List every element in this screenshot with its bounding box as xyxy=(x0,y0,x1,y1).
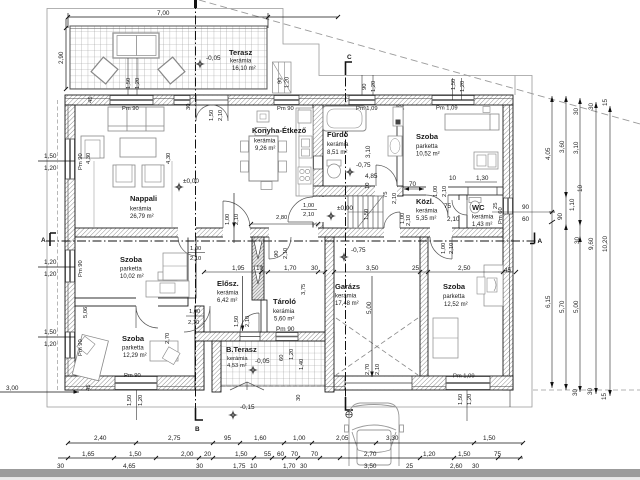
svg-text:1,30: 1,30 xyxy=(476,175,489,182)
room label elosz xyxy=(217,279,239,304)
svg-text:5,60 m²: 5,60 m² xyxy=(274,317,294,323)
svg-text:12,29 m²: 12,29 m² xyxy=(123,353,147,359)
svg-text:20: 20 xyxy=(204,451,212,458)
arc left divider door xyxy=(136,306,158,328)
svg-text:parketta: parketta xyxy=(120,267,142,273)
svg-text:2,80: 2,80 xyxy=(276,215,287,221)
bottom dimension row 2 xyxy=(58,456,523,460)
opening 1.30 bedroom south xyxy=(468,188,497,195)
svg-text:30: 30 xyxy=(472,463,480,470)
room label garazs xyxy=(335,282,360,307)
door dim line garage xyxy=(370,276,374,377)
svg-text:1,40: 1,40 xyxy=(299,359,305,370)
nappali chair b xyxy=(142,165,164,187)
wc window 90 60 xyxy=(492,204,555,223)
svg-text:±0,00: ±0,00 xyxy=(337,205,353,212)
left chain line xyxy=(57,100,59,392)
svg-text:2,90: 2,90 xyxy=(58,51,65,64)
svg-text:2,05: 2,05 xyxy=(336,435,349,442)
svg-text:12,52 m²: 12,52 m² xyxy=(444,302,468,308)
svg-text:kerámia: kerámia xyxy=(230,59,252,65)
svg-text:1,60: 1,60 xyxy=(254,435,267,442)
svg-text:1,00: 1,00 xyxy=(433,186,439,197)
room label terasz xyxy=(229,48,256,72)
svg-text:Szoba: Szoba xyxy=(416,132,439,141)
svg-text:3,50: 3,50 xyxy=(366,265,379,272)
svg-text:1,50: 1,50 xyxy=(126,78,132,89)
window tarolo south Pm90 xyxy=(276,333,298,341)
svg-text:kerámia: kerámia xyxy=(472,215,494,221)
entrance steps xyxy=(273,62,292,93)
nappali armchair xyxy=(81,136,104,158)
room label bterasz xyxy=(226,345,257,369)
svg-text:-0,05: -0,05 xyxy=(206,55,221,62)
svg-text:70: 70 xyxy=(311,451,319,458)
svg-text:Pm 90: Pm 90 xyxy=(122,106,139,112)
svg-text:2,00: 2,00 xyxy=(181,451,194,458)
tarolo-garage wall xyxy=(325,237,334,392)
bathtub xyxy=(323,106,366,131)
svg-text:1,50: 1,50 xyxy=(458,451,471,458)
svg-text:parketta: parketta xyxy=(122,346,144,352)
door gap wc xyxy=(459,200,468,215)
svg-text:C: C xyxy=(347,54,352,61)
svg-text:75: 75 xyxy=(494,451,502,458)
svg-text:90: 90 xyxy=(274,251,280,257)
level marker nappali xyxy=(174,178,199,192)
nappali chair a xyxy=(113,165,135,187)
svg-text:1,20: 1,20 xyxy=(460,81,466,92)
svg-text:Pm 90: Pm 90 xyxy=(276,326,295,333)
bedroom-hall partition left xyxy=(188,237,196,298)
elosz-tarolo partition xyxy=(261,300,267,332)
staircase xyxy=(348,196,383,228)
room label szoba ml xyxy=(120,255,144,280)
svg-text:-0,05: -0,05 xyxy=(255,358,270,365)
window wc right xyxy=(504,198,513,214)
svg-text:60: 60 xyxy=(522,216,530,223)
top wall window labels xyxy=(122,106,458,113)
svg-text:70: 70 xyxy=(291,451,299,458)
svg-text:60: 60 xyxy=(277,451,285,458)
svg-text:2,10: 2,10 xyxy=(218,110,224,121)
svg-text:30: 30 xyxy=(311,265,319,272)
svg-text:1,20: 1,20 xyxy=(285,77,291,88)
room label nappali xyxy=(130,194,157,220)
wall insulation layer lines xyxy=(65,99,513,387)
level marker garage xyxy=(339,247,366,262)
bath wall niche xyxy=(314,156,323,169)
svg-text:8,51 m²: 8,51 m² xyxy=(327,150,347,156)
svg-text:1,20: 1,20 xyxy=(44,341,57,348)
window top c xyxy=(274,96,299,105)
svg-text:Fürdő: Fürdő xyxy=(327,130,349,139)
svg-text:Pm 90: Pm 90 xyxy=(78,339,84,356)
svg-text:kerámia: kerámia xyxy=(327,142,349,148)
svg-text:15: 15 xyxy=(602,98,609,106)
section line B xyxy=(194,0,203,433)
window left b xyxy=(66,250,75,282)
svg-text:30: 30 xyxy=(587,387,594,395)
svg-text:Szoba: Szoba xyxy=(443,282,466,291)
svg-text:1,20: 1,20 xyxy=(44,259,57,266)
garage-room wall xyxy=(420,237,428,376)
top wall dim line C xyxy=(128,58,462,100)
door dim line elosz xyxy=(241,276,245,331)
svg-text:2,10: 2,10 xyxy=(245,316,251,327)
svg-text:90: 90 xyxy=(278,78,284,84)
dimension top 7,00 xyxy=(66,13,340,28)
main interior spine wall xyxy=(75,228,503,237)
svg-text:2,10: 2,10 xyxy=(449,243,455,254)
svg-text:10: 10 xyxy=(577,184,584,192)
window top Pm90 a xyxy=(110,96,153,105)
bath south wall xyxy=(313,186,403,196)
svg-text:30: 30 xyxy=(196,463,204,470)
svg-text:5,00: 5,00 xyxy=(366,301,373,314)
door gaps in spine wall xyxy=(178,228,452,238)
terrace door elosz xyxy=(240,333,260,341)
svg-text:1,20: 1,20 xyxy=(371,81,377,92)
bottom wall garage and room xyxy=(325,376,513,390)
svg-text:Terasz: Terasz xyxy=(229,48,252,57)
svg-text:1,70: 1,70 xyxy=(283,463,296,470)
svg-text:1,00: 1,00 xyxy=(190,246,201,252)
svg-text:2,70: 2,70 xyxy=(364,451,377,458)
interior dim row garage xyxy=(332,270,518,274)
back terrace west wall xyxy=(212,332,221,392)
room label szoba br xyxy=(443,282,468,308)
kozl door labels xyxy=(444,203,460,223)
svg-text:kerámia: kerámia xyxy=(416,209,438,215)
svg-text:Pm 90: Pm 90 xyxy=(277,106,294,112)
bottom dimension row 3 xyxy=(57,463,480,470)
bottom dashed reference line right xyxy=(533,389,640,391)
svg-text:30: 30 xyxy=(588,102,595,110)
bedroom south partition xyxy=(403,187,503,195)
desk room mid left xyxy=(146,272,189,297)
svg-text:1,43 m²: 1,43 m² xyxy=(472,222,492,228)
svg-text:2,75: 2,75 xyxy=(168,435,181,442)
washbasin xyxy=(388,136,402,156)
room label furdo xyxy=(327,130,349,156)
arc hall-garage door xyxy=(384,212,400,228)
svg-text:2,10: 2,10 xyxy=(283,248,289,259)
terrace chair right xyxy=(158,57,185,84)
left window dims xyxy=(38,161,75,337)
back terrace tiled floor xyxy=(221,341,325,390)
svg-text:1,20: 1,20 xyxy=(138,395,144,406)
arc elosz terrace door xyxy=(240,313,259,332)
kitchen stove xyxy=(298,167,311,184)
svg-text:26,79 m²: 26,79 m² xyxy=(130,214,154,220)
svg-text:1,00: 1,00 xyxy=(189,309,200,315)
svg-text:45: 45 xyxy=(86,385,92,391)
svg-text:2,10: 2,10 xyxy=(442,186,448,197)
svg-text:2,10: 2,10 xyxy=(392,193,398,204)
svg-text:4,53 m²: 4,53 m² xyxy=(227,363,247,369)
arc door into tarolo xyxy=(269,237,291,259)
svg-text:3,10: 3,10 xyxy=(365,145,372,158)
svg-text:4,05: 4,05 xyxy=(545,147,552,160)
svg-text:Szoba: Szoba xyxy=(120,255,143,264)
door dim line nappali xyxy=(232,193,236,243)
svg-text:10: 10 xyxy=(365,183,371,189)
svg-text:1,65: 1,65 xyxy=(82,451,95,458)
svg-text:6,15: 6,15 xyxy=(545,295,552,308)
svg-text:30: 30 xyxy=(57,463,65,470)
svg-text:Garázs: Garázs xyxy=(335,282,360,291)
svg-text:4,85: 4,85 xyxy=(365,173,378,180)
svg-text:parketta: parketta xyxy=(416,144,438,150)
svg-text:5,06: 5,06 xyxy=(83,307,89,318)
svg-text:1,95: 1,95 xyxy=(232,265,245,272)
svg-text:kerámia: kerámia xyxy=(335,294,357,300)
svg-text:90: 90 xyxy=(362,84,368,90)
terrace tiled floor xyxy=(70,26,267,89)
svg-text:2,10: 2,10 xyxy=(406,215,412,226)
bath-bedroom partition xyxy=(397,105,403,186)
svg-text:Közl.: Közl. xyxy=(416,197,434,206)
room label tarolo xyxy=(273,297,296,333)
wc toilet xyxy=(469,198,481,214)
svg-text:Szoba: Szoba xyxy=(122,334,145,343)
svg-text:55: 55 xyxy=(264,451,272,458)
room label wc xyxy=(472,203,494,228)
svg-text:3,30: 3,30 xyxy=(386,435,399,442)
svg-text:2,10: 2,10 xyxy=(234,214,240,225)
kitchen sink xyxy=(299,136,312,158)
window left a xyxy=(66,139,75,179)
room label szoba tr xyxy=(416,132,440,158)
left bedrooms divider wall xyxy=(75,298,188,306)
svg-text:30: 30 xyxy=(574,236,581,244)
svg-text:1,50: 1,50 xyxy=(234,316,240,327)
chimney block xyxy=(252,237,264,300)
window top b xyxy=(174,96,190,105)
bedroom tr dims xyxy=(404,181,424,191)
svg-text:kerámia: kerámia xyxy=(217,291,239,297)
svg-text:6,42 m²: 6,42 m² xyxy=(217,298,237,304)
svg-text:10: 10 xyxy=(250,463,258,470)
svg-text:7,00: 7,00 xyxy=(157,10,170,17)
desk room bottom left xyxy=(150,341,180,365)
window left c xyxy=(66,332,75,358)
svg-text:1,50: 1,50 xyxy=(127,395,133,406)
hall cabinet xyxy=(163,253,187,280)
svg-text:1,00: 1,00 xyxy=(303,203,314,209)
svg-text:1,50: 1,50 xyxy=(483,435,496,442)
svg-text:2,10: 2,10 xyxy=(375,364,381,375)
desk room top right xyxy=(474,152,498,169)
bottom window-door labels xyxy=(124,364,475,406)
svg-text:30: 30 xyxy=(573,107,580,115)
svg-text:3,75: 3,75 xyxy=(301,284,307,295)
svg-text:9,26 m²: 9,26 m² xyxy=(255,146,275,152)
bed room top right xyxy=(445,107,499,131)
svg-text:3,00: 3,00 xyxy=(6,385,19,392)
nappali sofa xyxy=(108,107,164,131)
room label szoba bl xyxy=(122,334,147,359)
arc bath door xyxy=(376,165,397,186)
svg-text:1,75: 1,75 xyxy=(233,463,246,470)
svg-text:Elősz.: Elősz. xyxy=(217,279,239,288)
svg-text:Pm 90: Pm 90 xyxy=(78,260,84,277)
right chain tick marks xyxy=(549,220,555,224)
svg-text:Pm 90: Pm 90 xyxy=(124,373,141,379)
bed room bottom left xyxy=(72,334,108,380)
svg-text:A: A xyxy=(538,238,543,245)
svg-text:1,50: 1,50 xyxy=(44,153,57,160)
svg-text:10,52 m²: 10,52 m² xyxy=(416,152,440,158)
svg-text:25: 25 xyxy=(412,265,420,272)
window top d xyxy=(349,96,375,105)
svg-text:30: 30 xyxy=(572,388,579,396)
door arcs xyxy=(136,105,467,332)
svg-text:2,70: 2,70 xyxy=(165,333,171,344)
wc labels xyxy=(493,203,504,224)
svg-text:30: 30 xyxy=(300,463,308,470)
dimension terrace 2,90 xyxy=(64,19,68,91)
bath vent diamond xyxy=(396,105,404,113)
svg-text:3,60: 3,60 xyxy=(559,140,566,153)
door gap bath south xyxy=(375,186,397,197)
svg-text:2,10: 2,10 xyxy=(190,256,201,262)
kitchen fridge xyxy=(298,110,311,123)
bottom grey bar xyxy=(0,469,640,477)
svg-text:5,70: 5,70 xyxy=(559,300,566,313)
svg-text:kerámia: kerámia xyxy=(130,207,152,213)
door size labels interior xyxy=(186,183,455,370)
arc room bottom right door xyxy=(430,237,452,259)
terrace door size labels xyxy=(209,110,224,121)
svg-text:25: 25 xyxy=(406,463,414,470)
svg-text:1,50: 1,50 xyxy=(129,451,142,458)
svg-text:parketta: parketta xyxy=(443,294,465,300)
svg-text:1,00: 1,00 xyxy=(225,214,231,225)
car xyxy=(345,403,404,466)
svg-text:Nappali: Nappali xyxy=(130,194,157,203)
svg-text:10: 10 xyxy=(256,265,264,272)
hall-wc partition xyxy=(459,195,467,228)
right exterior wall xyxy=(503,105,513,390)
roof eave outline xyxy=(47,9,532,408)
svg-text:2,10: 2,10 xyxy=(303,212,314,218)
arc bath-wall door into kitchen xyxy=(288,197,313,222)
svg-text:1,20: 1,20 xyxy=(135,78,141,89)
svg-text:kerámia: kerámia xyxy=(227,356,248,362)
svg-text:1,50: 1,50 xyxy=(364,209,370,220)
svg-text:1,00: 1,00 xyxy=(293,435,306,442)
door gap left divider xyxy=(136,298,158,307)
svg-text:3,50: 3,50 xyxy=(364,463,377,470)
left exterior wall xyxy=(65,105,75,390)
desk room bottom right xyxy=(477,265,503,306)
kitchen-bath wall xyxy=(313,105,323,228)
left wall rotated labels xyxy=(78,97,192,356)
level marker back terrace xyxy=(248,358,270,375)
svg-text:90: 90 xyxy=(557,212,564,220)
svg-text:30: 30 xyxy=(296,395,302,401)
dining chairs xyxy=(241,128,287,190)
svg-text:1,70: 1,70 xyxy=(284,265,297,272)
svg-text:10,02 m²: 10,02 m² xyxy=(120,274,144,280)
svg-text:2,60: 2,60 xyxy=(450,463,463,470)
window top e xyxy=(432,96,474,105)
nappali coffee table xyxy=(120,138,156,157)
svg-text:1,10: 1,10 xyxy=(569,198,576,211)
svg-text:17,48 m²: 17,48 m² xyxy=(335,301,359,307)
interior dim rows elosz tarolo xyxy=(202,270,327,274)
eave inner corner line xyxy=(514,76,516,96)
svg-text:2,40: 2,40 xyxy=(94,435,107,442)
arc kitchen door from hall xyxy=(223,201,250,228)
svg-text:A: A xyxy=(41,237,46,244)
interior extension lines nappali xyxy=(94,161,172,228)
terrace door opening xyxy=(196,96,228,105)
svg-text:1,20: 1,20 xyxy=(289,349,295,360)
svg-text:1,50: 1,50 xyxy=(458,394,464,405)
svg-text:45: 45 xyxy=(504,267,512,274)
dim line 2,80 xyxy=(249,222,320,226)
svg-text:16,10 m²: 16,10 m² xyxy=(232,66,256,72)
top exterior wall xyxy=(65,95,513,105)
svg-text:1,20: 1,20 xyxy=(44,271,57,278)
svg-text:Pm 1,09: Pm 1,09 xyxy=(453,374,475,380)
svg-text:70: 70 xyxy=(409,181,417,188)
kitchen counter xyxy=(296,108,313,196)
svg-text:4,30: 4,30 xyxy=(166,153,172,164)
door gap bedroom south xyxy=(426,187,448,196)
svg-text:9,60: 9,60 xyxy=(588,237,595,250)
svg-text:5,00: 5,00 xyxy=(573,300,580,313)
svg-text:1,00: 1,00 xyxy=(441,243,447,254)
svg-text:kerámia: kerámia xyxy=(254,139,276,145)
svg-text:95: 95 xyxy=(224,435,232,442)
dining table xyxy=(249,136,278,181)
section line C xyxy=(346,54,354,418)
wardrobe room bottom right xyxy=(433,318,458,358)
arc wc door xyxy=(452,200,467,215)
szoba east wall at back terrace xyxy=(195,306,204,390)
svg-text:1,50: 1,50 xyxy=(235,451,248,458)
level marker outside xyxy=(228,404,255,420)
garage door opening xyxy=(345,377,412,390)
room label kozl xyxy=(416,197,438,222)
svg-text:15: 15 xyxy=(601,392,608,400)
toilet bath xyxy=(327,160,341,178)
svg-text:1,20: 1,20 xyxy=(44,165,57,172)
arc bedroom top right door xyxy=(426,195,448,217)
svg-text:3,10: 3,10 xyxy=(573,141,580,154)
window bottom left Pm90 xyxy=(115,377,157,390)
bottom wall left rooms xyxy=(65,376,204,390)
room label konyha xyxy=(252,126,307,152)
svg-text:±0,00: ±0,00 xyxy=(183,178,199,185)
svg-text:2,10: 2,10 xyxy=(188,320,199,326)
svg-text:1,50: 1,50 xyxy=(209,110,215,121)
svg-text:4,30: 4,30 xyxy=(86,153,92,164)
svg-text:Pm 60: Pm 60 xyxy=(498,207,504,224)
svg-text:-0,15: -0,15 xyxy=(240,404,255,411)
arc terrace door into nappali xyxy=(196,105,228,121)
svg-text:1,20: 1,20 xyxy=(467,394,473,405)
svg-text:10,20: 10,20 xyxy=(602,236,609,252)
svg-text:30: 30 xyxy=(186,104,192,110)
arc elosz to bedroom door xyxy=(184,306,210,332)
terrace table xyxy=(113,33,159,58)
svg-text:-0,75: -0,75 xyxy=(356,162,371,169)
